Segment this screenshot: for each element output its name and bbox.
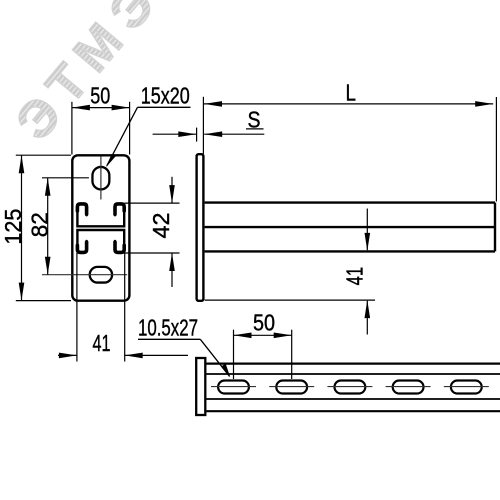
strut profile top half xyxy=(77,204,124,226)
channel top edge xyxy=(206,363,500,365)
dim 42: dimension line bottom xyxy=(171,253,173,287)
plate outline xyxy=(72,155,129,300)
svg-text:15x20: 15x20 xyxy=(141,83,190,109)
svg-text:50: 50 xyxy=(90,83,110,109)
end cap plate xyxy=(196,358,205,415)
beam bottom edge xyxy=(205,250,495,252)
slot 1 center line xyxy=(211,386,256,388)
base plate side xyxy=(197,154,204,301)
top slot center line xyxy=(100,157,102,200)
dim 41 bottom: extension lines xyxy=(76,253,78,362)
label 10.5x27 leader xyxy=(200,339,229,376)
profile lip hook top-right xyxy=(115,204,124,214)
dim 50 top: extension lines xyxy=(71,102,73,155)
dim 42: extension lines xyxy=(125,202,180,204)
channel inner line bottom xyxy=(206,398,500,400)
dim 41 bottom: dimension line left xyxy=(58,354,77,356)
ext line from plate bottom (dim 41 right) xyxy=(205,299,375,301)
beam middle line xyxy=(205,226,495,228)
dim L: extension line left xyxy=(202,97,204,154)
label 15x20 leader xyxy=(107,107,138,166)
svg-text:41: 41 xyxy=(93,330,111,356)
label 10.5x27 underline xyxy=(138,338,200,340)
strut profile bottom half xyxy=(77,230,124,252)
profile lip hook bottom-right xyxy=(115,242,124,252)
dim 42: dimension line top xyxy=(171,177,173,203)
svg-text:L: L xyxy=(346,80,357,106)
slot 2 center line xyxy=(269,386,314,388)
slot 4 center line xyxy=(386,386,431,388)
channel inner line top xyxy=(206,373,500,375)
dim 125: dimension line xyxy=(21,155,23,300)
svg-text:82: 82 xyxy=(26,212,52,237)
profile lip hook bottom-left xyxy=(77,242,86,252)
dim 82: extension line top xyxy=(42,177,89,179)
profile lip hook top-left xyxy=(77,204,86,214)
dim L: dimension line xyxy=(204,103,493,105)
dim 125: extension lines xyxy=(16,154,71,156)
slot 5 center line xyxy=(444,386,489,388)
beam end edge xyxy=(494,203,496,252)
dim 41 bottom: dimension line right xyxy=(125,354,188,356)
svg-text:50: 50 xyxy=(253,309,275,335)
dim S: stub extension xyxy=(196,128,198,142)
bottom slot center line (also ext for dim 82) xyxy=(42,274,127,276)
dim 50 bottom: dimension line xyxy=(234,334,292,336)
slot 2 xyxy=(276,381,307,394)
slot 3 center line xyxy=(327,386,372,388)
dim S: left arrow xyxy=(153,133,197,135)
svg-text:42: 42 xyxy=(148,213,174,239)
bottom slot xyxy=(90,267,112,283)
channel bottom edge xyxy=(206,410,500,412)
dim 50 top: dimension line xyxy=(72,107,130,109)
dim L: extension line right xyxy=(495,97,497,202)
dim S: right arrow xyxy=(204,133,264,135)
label 15x20 underline xyxy=(138,106,191,108)
slot 1 xyxy=(218,381,249,394)
svg-text:ЭТМ: ЭТМ xyxy=(5,5,141,151)
slot 3 xyxy=(335,381,366,394)
dim S: underline xyxy=(246,128,264,130)
top slot 15x20 xyxy=(92,167,109,190)
dim 41 right: dimension line top xyxy=(366,209,368,251)
dim 82: dimension line xyxy=(47,178,49,275)
slot 5 xyxy=(451,381,482,394)
svg-text:41: 41 xyxy=(341,267,367,286)
beam top edge xyxy=(205,201,495,203)
svg-text:125: 125 xyxy=(0,209,26,245)
slot 4 xyxy=(393,381,424,394)
svg-text:10.5x27: 10.5x27 xyxy=(138,315,198,341)
dim 50 bottom: extension lines xyxy=(233,330,235,379)
dim 41 right: dimension line bottom xyxy=(366,301,368,335)
